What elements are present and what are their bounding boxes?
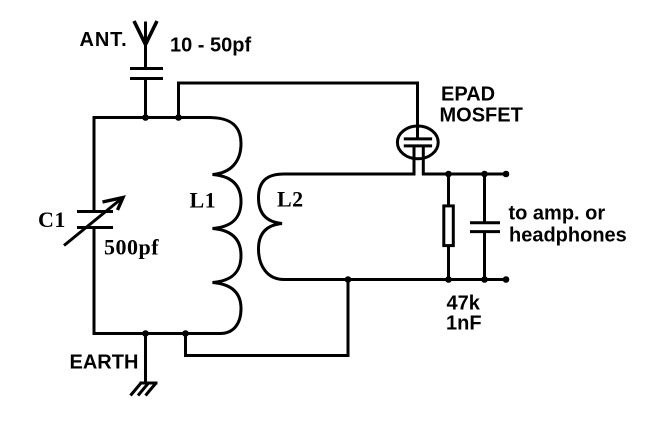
- svg-text:MOSFET: MOSFET: [440, 105, 523, 127]
- svg-text:headphones: headphones: [509, 225, 627, 247]
- output terminal top: [503, 171, 510, 178]
- node junction antenna/tank: [142, 114, 149, 121]
- svg-text:L2: L2: [277, 187, 304, 212]
- wire capacitor to tank node: [144, 80, 147, 119]
- svg-text:1nF: 1nF: [446, 313, 482, 335]
- node junction drain/resistor: [445, 171, 452, 178]
- ground symbol EARTH: [131, 383, 158, 396]
- wire left branch vertical: [93, 116, 96, 335]
- capacitor C3 1nF: [470, 174, 500, 280]
- inductor L1: [209, 118, 241, 334]
- svg-text:C1: C1: [38, 207, 66, 232]
- capacitor C2 (antenna trimmer) plates: [130, 69, 163, 79]
- wire earth lead: [144, 334, 147, 384]
- svg-text:47k: 47k: [447, 293, 481, 315]
- inductor L2: [259, 174, 285, 280]
- wire drain to output: [423, 173, 506, 176]
- resistor R1 47k: [444, 174, 454, 280]
- svg-text:EPAD: EPAD: [441, 84, 495, 106]
- label to amp. or headphones: [509, 203, 627, 247]
- wire L2 top to MOSFET source: [284, 173, 416, 176]
- node junction gate tap: [175, 114, 182, 121]
- node junction drain/capacitor: [481, 171, 488, 178]
- svg-text:L1: L1: [190, 188, 217, 213]
- wire gate feed to MOSFET: [179, 83, 418, 138]
- node junction return tap: [345, 276, 352, 283]
- node junction return/bus: [182, 330, 189, 337]
- label EPAD MOSFET: [440, 84, 523, 127]
- wire ground return from L2 bottom: [186, 280, 349, 356]
- svg-text:to amp. or: to amp. or: [509, 203, 606, 225]
- wire top-left bus: [94, 116, 212, 119]
- output terminal bottom: [503, 276, 510, 283]
- antenna ANT. symbol: [134, 21, 157, 68]
- svg-text:ANT.: ANT.: [80, 29, 128, 51]
- node junction resistor/bus: [445, 276, 452, 283]
- svg-text:10 - 50pf: 10 - 50pf: [170, 35, 251, 57]
- wire bottom output bus: [283, 278, 506, 281]
- variable capacitor C1: [64, 198, 123, 246]
- node junction capacitor/bus: [481, 276, 488, 283]
- node junction earth tap: [142, 330, 149, 337]
- wire bottom-left bus: [94, 332, 221, 335]
- transistor Q1 EPAD MOSFET: [397, 126, 438, 176]
- svg-text:500pf: 500pf: [104, 235, 159, 260]
- svg-text:EARTH: EARTH: [70, 352, 139, 374]
